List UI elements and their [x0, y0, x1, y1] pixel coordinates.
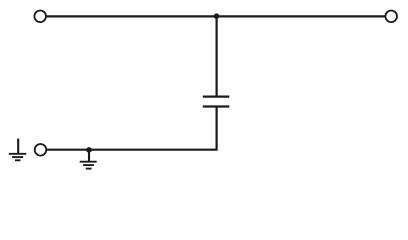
terminal top-right: [385, 10, 397, 22]
wire junction to capacitor: [216, 16, 218, 96]
node junction bottom PE: [86, 147, 92, 153]
terminal top-left: [34, 10, 46, 22]
capacitor C1 bottom plate: [203, 105, 230, 107]
ground PE on bottom bus: [80, 150, 97, 169]
wire top bus: [47, 15, 386, 17]
wire capacitor to bottom bus: [47, 107, 217, 150]
terminal bottom-left: [35, 144, 47, 156]
ground rail symbol left: [9, 139, 27, 161]
node junction top: [214, 13, 220, 19]
capacitor C1 top plate: [203, 95, 230, 97]
